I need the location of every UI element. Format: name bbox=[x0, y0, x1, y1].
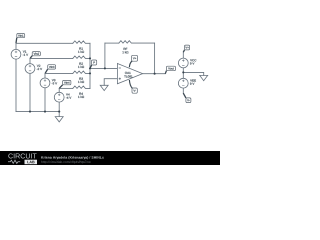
value V2 bbox=[37, 68, 42, 70]
value VCC bbox=[190, 62, 194, 64]
label R3 bbox=[79, 78, 82, 80]
value V4 bbox=[66, 97, 71, 99]
wire feedback vertical right bbox=[154, 43, 156, 74]
ground below source bus bbox=[55, 117, 63, 122]
value RF 1k bbox=[122, 51, 128, 53]
wire VCC top bbox=[182, 52, 184, 58]
wire V3 top bbox=[44, 73, 46, 78]
node flag Vin4 bbox=[59, 85, 62, 88]
wire V3 bottom bbox=[44, 88, 46, 112]
voltage source VEE bbox=[178, 78, 188, 88]
label R2 bbox=[79, 63, 82, 65]
CircuitLab logo word CIRCUIT bbox=[8, 153, 36, 158]
label VEE bbox=[190, 79, 196, 81]
wire feedback vertical left bbox=[104, 43, 106, 68]
ground at noninverting input bbox=[100, 85, 108, 90]
label V2 bbox=[37, 65, 41, 67]
resistor R2 bbox=[73, 56, 90, 58]
label V1 bbox=[23, 51, 27, 53]
node flag V+ op-amp bbox=[130, 60, 132, 63]
label RF bbox=[124, 48, 128, 50]
label TL081 bbox=[124, 75, 132, 77]
voltage source VCC bbox=[178, 58, 188, 68]
label R4 bbox=[79, 93, 83, 95]
voltage source V1 bbox=[11, 49, 21, 59]
ground for supplies bbox=[200, 75, 208, 80]
wire row2 from Vin2 column to R2 bbox=[30, 57, 73, 59]
resistor R1 bbox=[73, 41, 90, 43]
junction bus input wire bbox=[89, 67, 91, 69]
wire summing bus bbox=[89, 43, 91, 88]
wire noninverting input to ground bbox=[104, 79, 117, 86]
CircuitLab logo LAB bbox=[27, 161, 34, 164]
label V3 bbox=[52, 79, 56, 81]
junction bus row3 bbox=[89, 72, 91, 74]
node flag V+ supply bbox=[183, 50, 184, 52]
node flag Vin3 bbox=[45, 69, 48, 73]
junction feedback at input bbox=[104, 67, 106, 69]
value V3 bbox=[52, 82, 57, 84]
value R1 1k bbox=[78, 51, 84, 53]
junction supplies to ground bbox=[182, 71, 184, 73]
wire power junction to ground bbox=[183, 72, 203, 75]
label R1 bbox=[79, 48, 82, 50]
attribution line 1 bbox=[41, 156, 104, 159]
label V4 bbox=[66, 93, 70, 95]
wire op-amp output bbox=[143, 73, 166, 75]
attribution line 2 bbox=[41, 161, 90, 164]
node flag V- supply bbox=[183, 93, 186, 98]
wire ground stem below bus bbox=[58, 112, 60, 117]
label VCC bbox=[190, 59, 196, 61]
node flag P at summing node bbox=[90, 65, 92, 68]
label OA1 bbox=[125, 72, 131, 74]
node flag Vout bbox=[165, 71, 166, 74]
junction bottom bus V3 bbox=[44, 111, 46, 113]
node flag Vin1 bbox=[15, 38, 18, 43]
footer bar bbox=[0, 151, 220, 165]
CircuitLab logo LAB box bbox=[25, 160, 38, 165]
value R4 1k bbox=[78, 96, 84, 98]
resistor R4 bbox=[73, 86, 90, 88]
wire V2 top bbox=[29, 58, 31, 63]
wire V1 bottom bbox=[15, 59, 17, 111]
voltage source V3 bbox=[40, 78, 50, 88]
voltage source V2 bbox=[25, 64, 35, 74]
wire VCC to VEE bbox=[182, 68, 184, 78]
wire bus to op-amp inverting input bbox=[90, 67, 117, 69]
junction output feedback bbox=[154, 73, 156, 75]
wire feedback top lead bbox=[105, 42, 119, 44]
value V1 bbox=[23, 54, 28, 56]
wire V4 bottom bbox=[58, 102, 60, 112]
CircuitLab logo squiggle bbox=[8, 160, 20, 163]
wire V4 top bbox=[58, 88, 60, 92]
resistor RF bbox=[119, 41, 155, 43]
node flag Vin2 bbox=[30, 56, 32, 59]
wire row1 from Vin1 column to R1 bbox=[16, 42, 73, 44]
junction bottom bus V2 bbox=[29, 111, 31, 113]
value R2 1k bbox=[78, 66, 84, 68]
wire row3 from Vin3 column to R3 bbox=[45, 72, 73, 74]
junction bus row2 bbox=[89, 57, 91, 59]
wire VEE bottom bbox=[182, 88, 184, 93]
node flag V- op-amp bbox=[131, 87, 133, 90]
wire bottom bus bbox=[16, 111, 59, 113]
wire row4 from Vin4 column to R4 bbox=[59, 87, 73, 89]
junction bottom bus V4 bbox=[58, 111, 60, 113]
value R3 1k bbox=[78, 81, 84, 83]
resistor R3 bbox=[73, 71, 90, 73]
wire V2 bottom bbox=[29, 73, 31, 111]
voltage source V4 bbox=[54, 92, 64, 102]
wire V1 top bbox=[15, 43, 17, 49]
op-amp OA1 TL081 bbox=[117, 64, 142, 84]
value VEE bbox=[190, 83, 194, 85]
